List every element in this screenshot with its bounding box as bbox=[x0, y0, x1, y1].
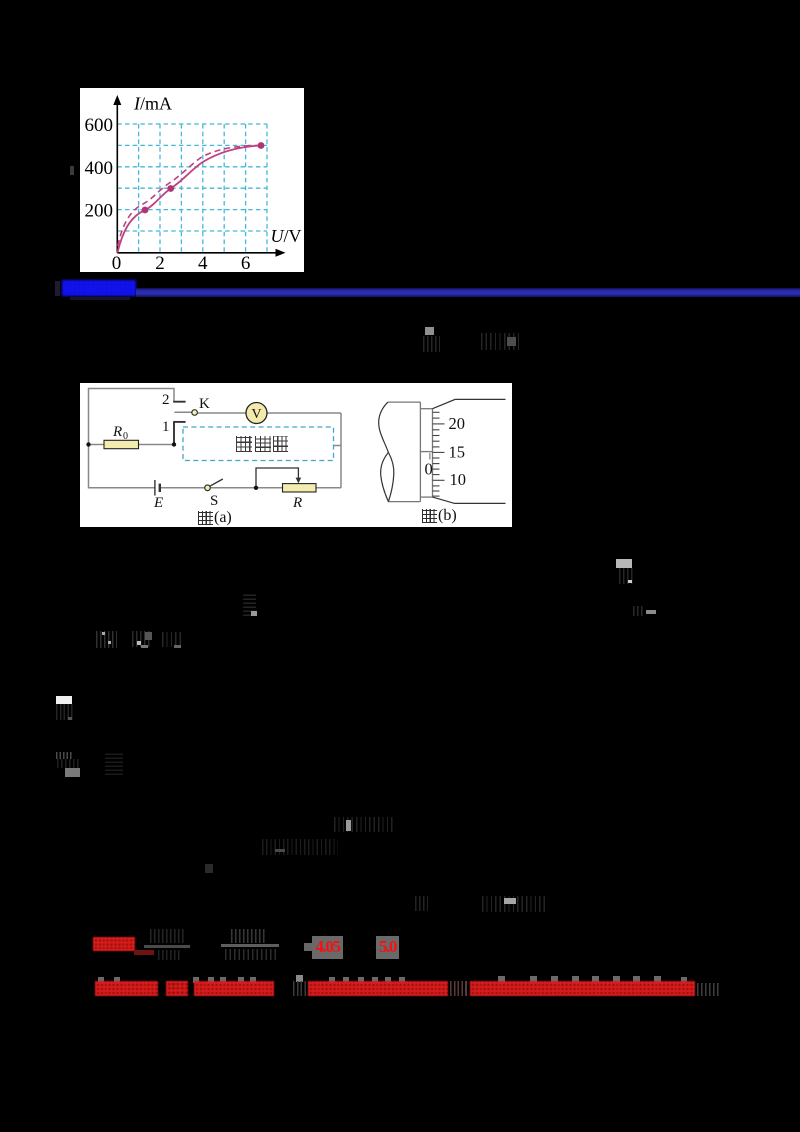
ghost expression rho value bbox=[482, 896, 547, 912]
ghost dot 2 bbox=[108, 641, 111, 644]
svg-text:400: 400 bbox=[85, 158, 114, 179]
ghost gray bar bbox=[346, 820, 351, 831]
svg-text:0: 0 bbox=[123, 431, 128, 442]
wire K to voltmeter bbox=[198, 412, 246, 414]
wire K lever bbox=[174, 411, 191, 413]
battery E bbox=[155, 480, 160, 496]
ghost gray dash bbox=[275, 849, 285, 852]
svg-text:2: 2 bbox=[162, 392, 170, 408]
ghost fraction numerator highlight bbox=[616, 559, 632, 568]
red analysis row : gray tabs above bbox=[98, 977, 104, 983]
svg-text:R: R bbox=[292, 495, 302, 511]
answer highlight boxes bbox=[304, 943, 312, 951]
ghost fraction body bbox=[56, 704, 73, 720]
switch S bbox=[205, 479, 223, 491]
wire R0 to node B bbox=[139, 444, 175, 446]
wire metal-wire box to right rail bbox=[334, 445, 342, 447]
micrometer thimble ticks bbox=[433, 412, 445, 496]
ghost formula body bbox=[423, 336, 440, 352]
svg-text:4: 4 bbox=[198, 253, 208, 272]
svg-text:200: 200 bbox=[85, 201, 114, 222]
dashed curve bbox=[118, 146, 261, 247]
circuit + micrometer white box bbox=[80, 383, 512, 527]
ghost dim column bbox=[105, 752, 123, 775]
labels under figures (CJK simulated) bbox=[198, 511, 213, 525]
ghost formula numerator block bbox=[425, 327, 434, 335]
ghost fraction 2 bbox=[221, 944, 279, 947]
ghost dot bbox=[205, 864, 213, 873]
switch K pin 2 stub bbox=[173, 401, 185, 403]
ghost glyph column bbox=[243, 592, 256, 616]
switch K pin 1 stub bbox=[173, 422, 185, 445]
svg-text:10: 10 bbox=[450, 470, 467, 489]
rheostat R bbox=[283, 484, 317, 492]
resistor R0 bbox=[104, 440, 139, 448]
micrometer frame / rod squiggle bbox=[379, 399, 506, 503]
wire switch S to rheostat R bbox=[210, 487, 282, 489]
ghost digit left of chart bbox=[70, 166, 74, 175]
red analysis row : text segments bbox=[95, 981, 158, 996]
x axis bbox=[117, 252, 280, 254]
micrometer main-scale zero tick bbox=[429, 453, 431, 460]
svg-text:1: 1 bbox=[162, 419, 170, 435]
svg-text:V: V bbox=[251, 407, 261, 422]
ghost formula speckles bbox=[481, 333, 521, 350]
blue section header bbox=[55, 281, 60, 296]
ghost expression bbox=[633, 606, 645, 616]
wire rheostat R to right rail bbox=[316, 487, 341, 489]
ghost bright mark bbox=[251, 611, 257, 616]
svg-text:600: 600 bbox=[85, 115, 114, 136]
svg-text:U/V: U/V bbox=[271, 226, 302, 246]
svg-text:E: E bbox=[153, 495, 163, 511]
y axis bbox=[116, 100, 118, 253]
ghost expression U= bbox=[132, 631, 152, 647]
ghost fraction body bbox=[619, 568, 633, 584]
wire voltmeter to right rail bbox=[267, 412, 341, 414]
svg-text:6: 6 bbox=[241, 253, 251, 272]
red answer row bbox=[93, 937, 135, 951]
svg-text:K: K bbox=[199, 396, 210, 412]
svg-text:15: 15 bbox=[449, 443, 466, 462]
svg-text:20: 20 bbox=[449, 414, 466, 433]
switch K contact bbox=[192, 410, 198, 416]
svg-text:I/mA: I/mA bbox=[133, 94, 172, 114]
rheostat R wiper arrow bbox=[256, 468, 301, 488]
ghost numerator highlight white bbox=[56, 696, 72, 704]
node B (R0 / K pin 1 / metal wire junction) bbox=[172, 442, 176, 446]
ghost dot 1 bbox=[102, 632, 105, 635]
grid horizontal dashed lines bbox=[117, 124, 267, 231]
ghost expression U2 bbox=[96, 631, 117, 648]
node C (bottom rail / wiper junction) bbox=[254, 486, 258, 490]
ghost speckle row bbox=[56, 752, 72, 759]
micrometer sleeve outline bbox=[388, 402, 433, 502]
ghost bright dot bbox=[137, 641, 141, 645]
voltmeter V bbox=[246, 403, 267, 424]
ghost expression r bbox=[334, 817, 394, 832]
ghost bright block bbox=[504, 898, 516, 904]
svg-text:S: S bbox=[210, 493, 218, 509]
svg-text:R: R bbox=[112, 424, 122, 440]
ghost gray dash 2 bbox=[174, 645, 181, 648]
wire battery to switch S bbox=[160, 487, 205, 489]
ghost rho glyph bbox=[415, 896, 428, 911]
chart figure white box bbox=[80, 88, 304, 272]
wire node A to R0 bbox=[89, 444, 105, 446]
wire top loop (node A to K pins / left rail / bottom rail) bbox=[89, 389, 175, 488]
grid vertical dashed lines bbox=[139, 124, 267, 253]
ghost gray block bbox=[145, 632, 152, 640]
ghost expression tail bbox=[162, 632, 184, 647]
ghost expression d bbox=[262, 839, 338, 855]
label R0 bbox=[112, 424, 128, 442]
ghost gray dash bbox=[141, 645, 148, 648]
wire right rail bbox=[340, 413, 342, 488]
metal wire text (inside dashed box, on white) bbox=[236, 436, 252, 452]
solid curve bbox=[118, 146, 262, 253]
svg-text:2: 2 bbox=[155, 253, 165, 272]
ghost gray dash bbox=[68, 717, 72, 720]
labels bbox=[85, 94, 302, 275]
ghost bright speck bbox=[628, 580, 632, 583]
svg-text:0: 0 bbox=[112, 253, 122, 272]
data points bbox=[142, 207, 149, 214]
ghost gray block bbox=[65, 768, 80, 777]
ghost glyph row bbox=[57, 759, 79, 768]
ghost fraction 1 bbox=[144, 945, 190, 948]
ghost gray dash bbox=[646, 610, 656, 614]
svg-text:0: 0 bbox=[425, 460, 433, 479]
metal wire sample (dashed box) bbox=[183, 427, 334, 461]
ghost bright dot bbox=[507, 337, 516, 346]
node A (left rail / R0 junction) bbox=[86, 442, 90, 446]
